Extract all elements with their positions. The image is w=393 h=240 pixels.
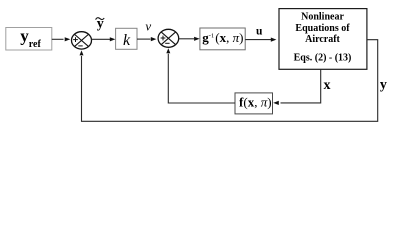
svg-text:Eqs. (2) - (13): Eqs. (2) - (13) xyxy=(294,53,352,64)
svg-text:Aircraft: Aircraft xyxy=(305,34,340,45)
svg-text:g-1(x, π): g-1(x, π) xyxy=(202,30,243,45)
svg-text:k: k xyxy=(123,32,131,49)
svg-text:x: x xyxy=(324,78,331,93)
svg-text:f(x, π): f(x, π) xyxy=(239,95,272,110)
svg-text:Nonlinear: Nonlinear xyxy=(301,12,344,23)
svg-text:Equations of: Equations of xyxy=(295,23,350,34)
svg-text:y: y xyxy=(380,77,387,92)
svg-text:u: u xyxy=(256,25,263,37)
svg-text:ν: ν xyxy=(145,18,151,33)
